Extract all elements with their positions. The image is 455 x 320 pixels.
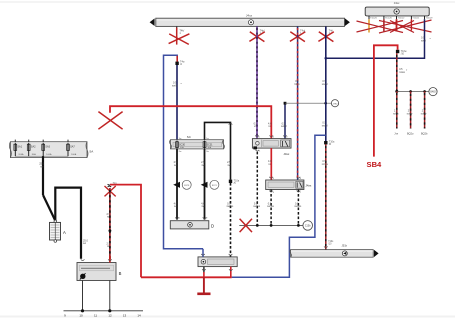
red stub at T4w <box>176 56 178 62</box>
svg-text:SA2: SA2 <box>31 146 36 149</box>
svg-text:J4xx: J4xx <box>394 1 400 5</box>
relay (bottom centre) <box>198 257 237 267</box>
stub wire ro/sw 2 <box>407 91 414 135</box>
svg-text:2: 2 <box>206 218 208 220</box>
svg-text:1w: 1w <box>179 138 182 140</box>
svg-text:ro/sw: ro/sw <box>421 112 427 115</box>
faint page rule bottom <box>0 316 455 318</box>
junction T4w <box>175 62 178 65</box>
red bottom horizontal <box>141 276 232 278</box>
wire ro/sw to starter B <box>109 188 111 260</box>
fuse SC31 symbol <box>203 142 206 148</box>
svg-text:ro/sw: ro/sw <box>393 112 399 115</box>
svg-text:2w: 2w <box>206 151 209 153</box>
svg-text:100A: 100A <box>46 153 52 156</box>
svg-text:B483: B483 <box>430 92 436 94</box>
svg-text:sw/ws: sw/ws <box>267 205 275 208</box>
connector T10w <box>396 50 399 53</box>
ground wires from starter B <box>82 281 84 311</box>
red feed horizontal (to T2q riser) <box>110 185 141 278</box>
svg-text:2w: 2w <box>179 151 182 153</box>
svg-text:vi: vi <box>254 125 256 128</box>
wire bl junction T4w <box>164 55 178 249</box>
wire sw/ws from J1 pin1 down <box>256 152 258 226</box>
SA top stubs <box>15 140 68 143</box>
faint page rule top <box>0 1 455 3</box>
svg-text:14: 14 <box>137 313 141 317</box>
svg-text:sw/bl: sw/bl <box>322 83 328 86</box>
svg-text:C15b: C15b <box>305 225 311 228</box>
node where sw/li joins sw/bl <box>325 57 328 60</box>
wire ro/sw down to bus bar J51b <box>325 144 327 249</box>
crossed-out link (asterisk) at pin 1 <box>169 28 190 45</box>
fuse strip SA <box>9 142 93 158</box>
svg-text:/10: /10 <box>401 52 405 55</box>
svg-text:200A: 200A <box>18 153 24 156</box>
crossed-out stub (red X) left end <box>98 112 122 130</box>
wire sw/li from pin 5 down and left <box>326 19 425 58</box>
ground rail with track numbers <box>64 310 144 312</box>
svg-text:ro/sw: ro/sw <box>322 163 328 166</box>
bus bar J51b <box>290 244 379 258</box>
crossed-out marks over module pins (red X lattice) <box>357 20 432 33</box>
svg-text:1: 1 <box>259 151 261 153</box>
wire vi from bus pin2 to J1 <box>256 26 258 138</box>
svg-text:*: * <box>406 68 408 72</box>
svg-text:J4xx: J4xx <box>305 183 311 187</box>
svg-text:B371: B371 <box>212 185 218 187</box>
svg-text:SA: SA <box>89 150 93 154</box>
node circle C15b <box>303 221 313 231</box>
crossed-out link (asterisk) at pin 3 <box>290 32 305 42</box>
svg-text:T10a/5: T10a/5 <box>370 18 378 20</box>
svg-text:sw/bl: sw/bl <box>322 124 328 127</box>
svg-text:10: 10 <box>79 313 83 317</box>
pin stub 2 on bus bar <box>256 26 258 29</box>
svg-text:BQ2o: BQ2o <box>407 132 414 135</box>
wire sw/bl from node line to J1 pin3 <box>284 103 286 138</box>
red stub into starter B <box>109 256 111 263</box>
starter B <box>77 263 122 281</box>
svg-text:SB4: SB4 <box>367 160 383 169</box>
svg-text:sw: sw <box>83 242 86 245</box>
svg-text:T10a/6: T10a/6 <box>385 18 393 20</box>
svg-text:sw/ws: sw/ws <box>253 205 261 208</box>
svg-text:T10a/1: T10a/1 <box>412 18 420 20</box>
svg-text:7: 7 <box>300 192 302 194</box>
svg-text:30A: 30A <box>208 146 212 149</box>
svg-text:/2: /2 <box>180 63 183 66</box>
module pin labels <box>370 18 433 20</box>
svg-text:4: 4 <box>273 192 275 194</box>
blue stub into relay <box>202 249 204 257</box>
collector line to B483 <box>397 90 429 92</box>
svg-text:sw: sw <box>40 165 43 168</box>
fuse strip SC <box>170 135 225 149</box>
wire sw/bl down to fuse SC <box>176 65 178 140</box>
svg-text:J51b: J51b <box>342 244 348 248</box>
T2q connector <box>108 183 118 187</box>
svg-text:SC: SC <box>187 135 192 139</box>
svg-text:J792: J792 <box>333 103 339 105</box>
relay J1 <box>252 139 291 156</box>
node on ro/sw wire <box>395 90 398 93</box>
wire ro J1 to J2 <box>270 148 272 180</box>
svg-text:SA7: SA7 <box>70 146 75 149</box>
pin stub 4 on bus bar <box>325 26 327 29</box>
svg-text:A: A <box>63 230 66 235</box>
svg-text:sw: sw <box>202 205 205 208</box>
pin hooks (connector sockets) <box>81 123 328 270</box>
svg-text:ro/sw: ro/sw <box>407 112 413 115</box>
svg-text:bl/ro: bl/ro <box>295 83 300 86</box>
stub wire ro/sw 3 <box>421 91 428 135</box>
wire sw/ws from J2 pin down (right) <box>297 190 299 226</box>
diagonal wire to battery A <box>43 195 55 221</box>
svg-text:D: D <box>211 224 214 229</box>
svg-text:ro/sw: ro/sw <box>399 71 405 74</box>
wire sw 25.0 from SA3 down <box>42 156 44 195</box>
svg-text:13: 13 <box>123 313 127 317</box>
module pin stubs <box>369 16 425 19</box>
svg-text:T10a/2: T10a/2 <box>398 18 406 20</box>
wire sw/bl from bus pin4 down <box>325 26 327 141</box>
destination arrow B371 <box>201 182 208 188</box>
destination arrow B378 <box>173 182 180 188</box>
wire sw/ws from J2 pin down (left) <box>270 190 272 226</box>
svg-text:80A: 80A <box>32 153 36 156</box>
component D <box>170 221 214 229</box>
ground symbol (red) <box>203 277 205 292</box>
svg-text:1: 1 <box>179 32 181 35</box>
stub wire ro/sw 1 <box>393 91 399 135</box>
wire from battery A up and to starter B <box>55 188 81 259</box>
node circle B483 <box>429 88 437 96</box>
svg-text:/10: /10 <box>328 244 332 246</box>
svg-text:SC31: SC31 <box>207 143 214 146</box>
wire sw from SC fuse 2 up/right and down <box>205 122 231 179</box>
wire stub ro pin 4 <box>410 19 412 30</box>
junction T10a/5 <box>229 180 232 183</box>
J1 pin 1 terminal <box>253 146 257 149</box>
crossed-out mark at T2q <box>105 186 116 196</box>
svg-text:/R: /R <box>329 143 332 146</box>
svg-text:30A: 30A <box>180 146 184 149</box>
svg-text:/5: /5 <box>234 182 237 185</box>
wire sw from SC fuse 1 down <box>176 149 178 220</box>
fuse SC30 symbol <box>176 142 179 148</box>
fuse SA2 <box>27 144 30 150</box>
relay J2 <box>266 180 312 190</box>
bus bar J (top, plus connection 30) <box>150 14 350 27</box>
wire ro/sw down from T10w <box>396 53 398 91</box>
svg-text:sw: sw <box>174 164 177 167</box>
svg-text:SC30: SC30 <box>179 143 186 146</box>
fuse SA3 <box>42 144 45 150</box>
svg-text:SA1: SA1 <box>17 146 22 149</box>
svg-text:BQ2b: BQ2b <box>421 132 428 135</box>
svg-text:B: B <box>119 271 122 276</box>
svg-text:1w: 1w <box>206 138 209 140</box>
wire sw from SC fuse 2 down <box>204 149 206 220</box>
svg-text:SA3: SA3 <box>45 146 50 149</box>
svg-text:sw/li: sw/li <box>421 39 426 42</box>
svg-text:sw: sw <box>228 164 231 167</box>
crossed-out link (asterisk) at pin 4 <box>318 32 333 42</box>
node collector line to J792 <box>285 102 331 104</box>
svg-text:*: * <box>430 37 432 41</box>
fuse SA7 <box>67 144 70 150</box>
svg-text:100A: 100A <box>71 153 77 156</box>
svg-text:J-w: J-w <box>394 132 398 135</box>
svg-text:J4xx: J4xx <box>283 152 289 156</box>
svg-text:B378: B378 <box>184 185 190 187</box>
wire stub or (orange) pin 1 <box>368 19 370 32</box>
red trunk wire (horizontal) <box>110 106 271 138</box>
svg-text:sw/bl: sw/bl <box>281 125 287 128</box>
svg-text:T10a/9: T10a/9 <box>426 18 434 20</box>
svg-text:J4xx: J4xx <box>246 14 253 18</box>
svg-text:11: 11 <box>94 313 97 317</box>
node circle J792 <box>331 100 338 107</box>
svg-text:sw/bl: sw/bl <box>172 85 178 88</box>
svg-text:*: * <box>181 82 183 86</box>
relay pin stubs bottom (red) <box>203 267 205 273</box>
blue branch wire (bl) to relay low <box>232 135 326 277</box>
fuse SA1 <box>14 144 17 150</box>
crossed-out stub (red X) on collector line <box>240 219 252 232</box>
svg-text:sw/ws: sw/ws <box>294 205 302 208</box>
fuse feed SB4 (red riser) <box>374 45 398 156</box>
svg-text:12: 12 <box>108 313 112 317</box>
collector line to C15b <box>239 224 302 226</box>
wire stub ro pin 2 <box>383 19 385 32</box>
svg-text:sw: sw <box>174 205 177 208</box>
control module J4xx (top right) <box>365 1 429 16</box>
battery A <box>50 220 67 242</box>
wire bl/ro from bus pin3 down <box>297 26 299 179</box>
wire sw/ws down to relay <box>230 183 232 257</box>
pin stub 1 on bus bar <box>176 26 178 29</box>
svg-text:sw/ws: sw/ws <box>227 205 235 208</box>
crossed-out link (asterisk) at pin 2 <box>249 32 264 42</box>
svg-text:1: 1 <box>179 218 181 220</box>
svg-text:sw: sw <box>202 164 205 167</box>
wire stub ro pin 3 <box>396 19 398 31</box>
pin stub 3 on bus bar <box>297 26 299 29</box>
